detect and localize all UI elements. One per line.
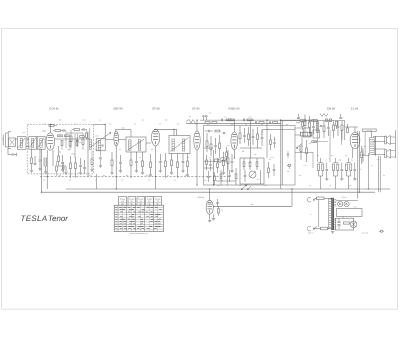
mains plug prong A <box>307 197 311 202</box>
ground G19 <box>208 220 211 222</box>
resistor R26 <box>248 127 250 146</box>
capacitor C37 <box>297 114 299 119</box>
resistor R16 <box>223 152 225 172</box>
capacitor C38 <box>320 126 322 127</box>
wire rect top <box>336 200 358 202</box>
resistor R57 <box>214 172 216 185</box>
value text t5 <box>242 150 245 153</box>
label EZ 80 <box>342 196 347 199</box>
wire T4 sp1 b <box>373 141 385 143</box>
wire V6 top <box>354 127 356 132</box>
wire fm h141 <box>313 141 328 143</box>
ground G5 <box>79 173 82 175</box>
antenna bracket inner <box>8 132 11 149</box>
resistor R23 <box>273 122 278 124</box>
resistor R48 <box>218 206 220 215</box>
wire T2 out <box>146 142 151 144</box>
speaker SP1 <box>385 135 391 144</box>
wire IF1 drop b <box>100 151 102 157</box>
resistor R9 <box>165 153 167 178</box>
capacitor C8 <box>119 155 122 170</box>
resistor R10 <box>171 154 173 173</box>
ferrite antenna box A1 <box>8 138 15 146</box>
resistor R62 <box>336 121 338 129</box>
parts alignment table <box>114 197 163 232</box>
capacitor C26 <box>337 121 340 136</box>
wire gap link <box>67 132 83 134</box>
potentiometer P1 <box>249 171 256 178</box>
resistor R29 <box>249 158 251 170</box>
ground G14 <box>181 171 184 173</box>
resistor pair R45 R46 <box>346 158 357 189</box>
wire V3 anode top <box>155 128 157 130</box>
resistor R13 <box>206 133 208 152</box>
wire det v227 <box>227 161 229 185</box>
wire V4 down <box>196 150 198 185</box>
label EL 84 <box>351 107 358 110</box>
resistor R60 <box>268 162 270 178</box>
trimmer pair C6 <box>83 160 86 174</box>
resistor R8 <box>150 154 152 174</box>
capacitor C36 <box>273 164 275 176</box>
ground G13 <box>170 173 173 175</box>
capacitor C16 <box>255 121 256 124</box>
dial lamp terminals <box>203 115 207 120</box>
power transformer TR1 secondary windings <box>334 200 336 229</box>
value text t2 <box>59 151 62 154</box>
resistor R6 <box>130 152 132 178</box>
power transformer TR1 primary winding <box>329 199 331 229</box>
HT rectangle <box>337 209 363 217</box>
table footer text <box>129 232 148 235</box>
ground G16 <box>222 173 225 175</box>
wire fm rail <box>296 122 300 124</box>
resistor R20 <box>226 119 231 121</box>
tube V1 ECH81 <box>46 133 55 150</box>
wire L2 drop <box>41 149 43 192</box>
IF transformer T3 box <box>169 136 190 154</box>
capacitor C34 <box>228 170 230 182</box>
resistor R7 <box>142 152 144 172</box>
wire T4 sp2 b <box>373 154 385 156</box>
resistor R58 <box>235 168 237 185</box>
wire osc right v <box>89 128 91 139</box>
tube V6 EL84 <box>350 132 360 148</box>
wire right top rail <box>282 120 346 122</box>
shield box ECH81 oscillator <box>27 124 93 174</box>
wire mains bottom <box>315 228 332 230</box>
resistor R17 <box>227 150 229 170</box>
coil T3a <box>172 139 174 151</box>
resistor R15 <box>219 135 221 158</box>
svg-text:6BE6: 6BE6 <box>42 130 46 133</box>
IF transformer T1 box <box>96 139 105 151</box>
ground G20 transformer <box>331 231 334 233</box>
capacitor C2 <box>39 148 42 168</box>
ground G9 <box>135 171 138 173</box>
pot P2 <box>287 164 291 169</box>
power transformer TR1 core <box>332 198 333 230</box>
capacitor C24 <box>312 119 315 134</box>
resistor R55 <box>217 158 219 173</box>
wire fm down1 <box>301 136 303 146</box>
wire speaker return vertical <box>390 130 395 158</box>
value text t3 <box>71 153 75 156</box>
wire vertical x282b <box>281 121 283 185</box>
capacitor C21 <box>244 170 247 182</box>
coil T2b <box>138 140 140 150</box>
speaker SP2 <box>385 149 391 158</box>
resistor pair R43 R44 <box>333 158 344 189</box>
capacitor C32 <box>209 159 211 171</box>
resistor R19 <box>212 122 217 124</box>
capacitor C18 <box>243 128 246 143</box>
IF transformer T2 box <box>126 137 146 152</box>
svg-text:TESLA: TESLA <box>21 214 48 223</box>
resistor R36 <box>323 121 325 138</box>
wire fm v2 <box>344 121 346 140</box>
small box FM2 <box>313 130 320 138</box>
value text EM84 <box>198 196 205 199</box>
capacitor C25 <box>327 121 330 136</box>
wire interior v2 <box>249 120 251 158</box>
wire T1 left vertical <box>87 132 89 177</box>
value text P2 <box>287 170 290 173</box>
resistor R59 <box>270 134 272 150</box>
wire vertical x281a <box>280 119 282 189</box>
wire V5 top <box>233 120 235 132</box>
capacitor C7 in T1 <box>101 145 103 146</box>
wire heater feed a <box>378 156 380 192</box>
wire antenna down <box>7 148 9 154</box>
PSU sub box <box>336 218 354 230</box>
wire V2 grid loop <box>116 130 132 137</box>
svg-text:(EM 84): (EM 84) <box>198 196 205 199</box>
ground G4 <box>44 172 47 174</box>
wire bottom chassis bus A <box>66 188 390 190</box>
capacitor C19 <box>252 129 255 145</box>
label EF 89 <box>152 107 160 110</box>
resistor R47 <box>361 146 363 164</box>
ground G6 <box>64 173 67 175</box>
wire subbox v <box>260 170 262 184</box>
choke L4 <box>316 122 318 133</box>
resistor R35 <box>309 116 311 134</box>
resistor R2 <box>58 146 60 166</box>
resistor R24 top <box>229 119 235 121</box>
capacitor C46 <box>287 151 289 158</box>
trimmer arrow T1 <box>90 133 111 148</box>
component value annotations <box>59 112 380 188</box>
resistor R74 <box>61 141 63 151</box>
wire mains mid vertical <box>318 200 320 228</box>
value text t8 <box>221 209 224 212</box>
wire inner rail <box>262 130 295 136</box>
wire V1 cathode down <box>46 150 48 189</box>
ground G22 <box>99 166 102 168</box>
phono jack <box>379 230 384 232</box>
capacitor C15 <box>243 119 244 122</box>
resistor R31 <box>300 120 306 122</box>
label ECH 81 <box>49 107 59 110</box>
resistor R77 <box>80 136 85 138</box>
wire fm link1 <box>295 127 302 129</box>
resistor R68 <box>72 129 80 131</box>
ground G7 <box>110 173 113 175</box>
wire osc mid v1 <box>65 131 67 148</box>
resistor R27 <box>257 127 259 148</box>
resistor R34 <box>304 115 306 133</box>
resistor R25 <box>239 126 241 144</box>
wire osc bottom link <box>59 166 67 172</box>
zigzag above V4 <box>186 120 195 124</box>
antenna bracket outer <box>6 133 9 147</box>
capacitor C44 <box>62 162 64 173</box>
resistor R70 <box>312 141 317 143</box>
svg-text:220 V~: 220 V~ <box>308 232 313 235</box>
wire V6 top rail <box>345 126 358 128</box>
wire V2 cathode down <box>115 146 117 189</box>
tube V2 EBF89 <box>114 131 119 146</box>
zigzag R33 <box>320 114 328 117</box>
coil T1b <box>98 141 100 151</box>
rectifier tube V8b <box>344 201 349 206</box>
ground G17 <box>230 171 233 173</box>
wire IF1 drop a <box>91 151 93 159</box>
output transformer T4 <box>365 132 376 156</box>
wire EM84 bottom2 <box>212 215 215 221</box>
capacitor C9 <box>135 152 138 170</box>
resistor R65 <box>70 130 72 148</box>
capacitor C42 <box>99 158 101 165</box>
wire PSU bottom <box>331 229 336 231</box>
coil L3 osc <box>44 158 46 171</box>
capacitor C5 <box>79 158 82 172</box>
value text t4 <box>219 161 222 164</box>
ground G11 <box>149 175 152 177</box>
resistor R61 <box>302 121 304 130</box>
resistor R14 <box>210 136 212 156</box>
svg-text:100n: 100n <box>121 127 125 130</box>
svg-text:EABC 80: EABC 80 <box>228 107 240 110</box>
value text 100n <box>121 127 125 130</box>
wire osc drop right <box>96 174 98 189</box>
wire box interior v3 <box>266 120 268 158</box>
resistor R28 <box>243 158 245 170</box>
value text t9 <box>362 231 369 234</box>
resistor R38 <box>341 121 343 140</box>
resistor R71 top cap <box>49 125 57 127</box>
trimmer C4 <box>34 156 37 165</box>
antenna bracket far left <box>2 135 3 146</box>
svg-text:EF 80: EF 80 <box>192 107 200 110</box>
value text t1 <box>42 130 46 133</box>
wire FM top rail <box>200 119 300 121</box>
switch contact a <box>241 186 245 190</box>
resistor R51 <box>344 222 350 224</box>
wire mid top rail <box>186 122 281 124</box>
capacitor C13 <box>231 154 234 170</box>
capacitor C35 <box>273 137 275 148</box>
svg-text:~: ~ <box>310 213 312 217</box>
wire fm vertical x341 <box>341 130 343 145</box>
pilot lamp LA1 <box>350 221 357 228</box>
wire detector link <box>240 147 262 149</box>
wire HT link <box>342 217 344 219</box>
trimmer arrow T3 <box>171 138 189 152</box>
resistor R52 <box>215 130 220 132</box>
wire V3 top rail <box>154 129 177 135</box>
resistor R54 <box>206 155 208 170</box>
capacitor C33 <box>207 171 209 182</box>
capacitor C27 <box>362 148 365 162</box>
wire V1 screen down <box>52 150 54 166</box>
wire interior v1 <box>213 150 215 185</box>
wire left top rail <box>93 123 105 125</box>
ground G1 <box>30 171 33 173</box>
resistor R66 <box>82 133 84 150</box>
tube V7 EM84 <box>206 200 213 214</box>
svg-text:ECH 81: ECH 81 <box>49 107 59 110</box>
wire fm h152 <box>295 152 313 168</box>
wire fm link2 <box>295 134 300 136</box>
svg-text:Tenor: Tenor <box>48 214 68 223</box>
resistor R53 <box>226 147 228 161</box>
capacitor C3 <box>61 155 64 169</box>
resistor R18 <box>205 122 210 124</box>
ground G8 <box>119 171 122 173</box>
wire antenna link2 <box>26 138 29 140</box>
resistor R32 <box>312 120 318 122</box>
wire V2 plate right <box>106 138 127 140</box>
wire T1 in <box>55 138 90 140</box>
switch contact b <box>247 186 251 190</box>
coil T2a <box>129 140 131 150</box>
mains tilde <box>310 213 312 217</box>
capacitor C12 <box>214 138 217 154</box>
ground G3 <box>61 170 64 172</box>
svg-text:EM 84: EM 84 <box>327 107 335 110</box>
coil T1a <box>89 140 91 150</box>
wire V5 down <box>233 150 235 159</box>
wire magic eye riser <box>291 189 293 206</box>
capacitor C1 input <box>8 153 17 156</box>
capacitor C28 <box>216 199 218 207</box>
mains switch S1a <box>313 198 317 201</box>
resistor R30 <box>256 158 258 170</box>
antenna coil box L2 <box>29 137 37 150</box>
ground G12 <box>159 171 162 173</box>
value text t6 <box>267 128 270 131</box>
wire bottom chassis bus B <box>42 191 376 193</box>
resistor R40 <box>306 140 308 162</box>
wire V4 top <box>196 120 198 131</box>
resistor R76 <box>76 137 78 146</box>
shielded coil dark bar <box>301 132 312 136</box>
rectifier tube V8a <box>338 201 343 206</box>
wire AVC bus <box>40 176 230 178</box>
wire det h161 <box>204 160 228 162</box>
wire junction dots <box>41 120 369 199</box>
antenna coil box L2b <box>37 137 45 150</box>
resistor R22 <box>259 122 264 124</box>
ground G21 <box>90 170 93 172</box>
mains switch S1b <box>313 227 317 230</box>
wire V6 k <box>367 153 369 189</box>
resistor R67 <box>91 159 93 169</box>
title TESLA Tenor <box>21 214 69 223</box>
capacitor C11 <box>182 154 185 171</box>
capacitor C20 <box>261 130 264 146</box>
value text t7 <box>274 138 276 141</box>
resistor R4 <box>75 157 77 178</box>
wire detector h2 <box>204 167 214 169</box>
electrolytic C45 <box>219 158 228 161</box>
resistor R63 <box>347 124 349 133</box>
resistor R56 <box>220 170 222 185</box>
resistor R37 <box>333 121 335 138</box>
wire fm vertical x317 <box>317 122 319 162</box>
wire EM84 bottom <box>209 214 211 219</box>
wire antenna link bottom <box>26 146 29 148</box>
wire mains top <box>324 197 331 199</box>
resistor R75 <box>69 137 71 151</box>
ground G10 <box>141 173 144 175</box>
resistor R69 <box>86 130 88 140</box>
wire V6 down <box>352 148 354 158</box>
capacitor C40 <box>61 129 67 132</box>
resistor R50 <box>321 227 328 230</box>
resistor R21 <box>247 119 252 121</box>
ground G2 <box>38 169 41 171</box>
wire EM84 riser <box>209 190 211 201</box>
capacitor C22 <box>309 119 310 122</box>
resistor R73 <box>65 135 70 137</box>
wire T4 top <box>370 131 372 137</box>
wire magic eye feed <box>213 205 292 207</box>
resistor pair R41 R42 <box>318 158 329 189</box>
resistor R78 <box>56 161 58 176</box>
ground G15 <box>186 175 189 177</box>
wire left top rail corner <box>104 124 106 138</box>
capacitor C41 <box>76 134 78 147</box>
label T1 <box>94 134 98 137</box>
capacitor C30 <box>205 130 213 133</box>
capacitor C10 <box>159 154 162 170</box>
wire HT feed vertical a <box>357 131 359 199</box>
wire T4 sp2 a <box>373 148 385 150</box>
capacitor C43 <box>81 128 87 131</box>
label EABC 80 <box>228 107 240 110</box>
wire T4 sp1 a <box>373 136 385 138</box>
trimmer C23 <box>325 119 332 122</box>
component value annotations 2 <box>23 123 385 188</box>
capacitor C39 <box>339 114 341 119</box>
label EM 84 <box>327 107 335 110</box>
resistor R72 <box>58 135 63 137</box>
output transformer label box <box>363 129 377 132</box>
resistor R12 <box>187 154 189 175</box>
resistor R5 <box>111 152 113 172</box>
AF sub box <box>240 158 264 184</box>
ground G18 <box>244 185 247 187</box>
svg-text:EF 89: EF 89 <box>152 107 160 110</box>
capacitor C14 <box>221 119 222 122</box>
fuse resistor R49 <box>315 197 324 200</box>
label EBF 89 <box>114 107 123 110</box>
value text 220V <box>308 232 313 235</box>
wire fm vertical x330 <box>329 130 331 162</box>
